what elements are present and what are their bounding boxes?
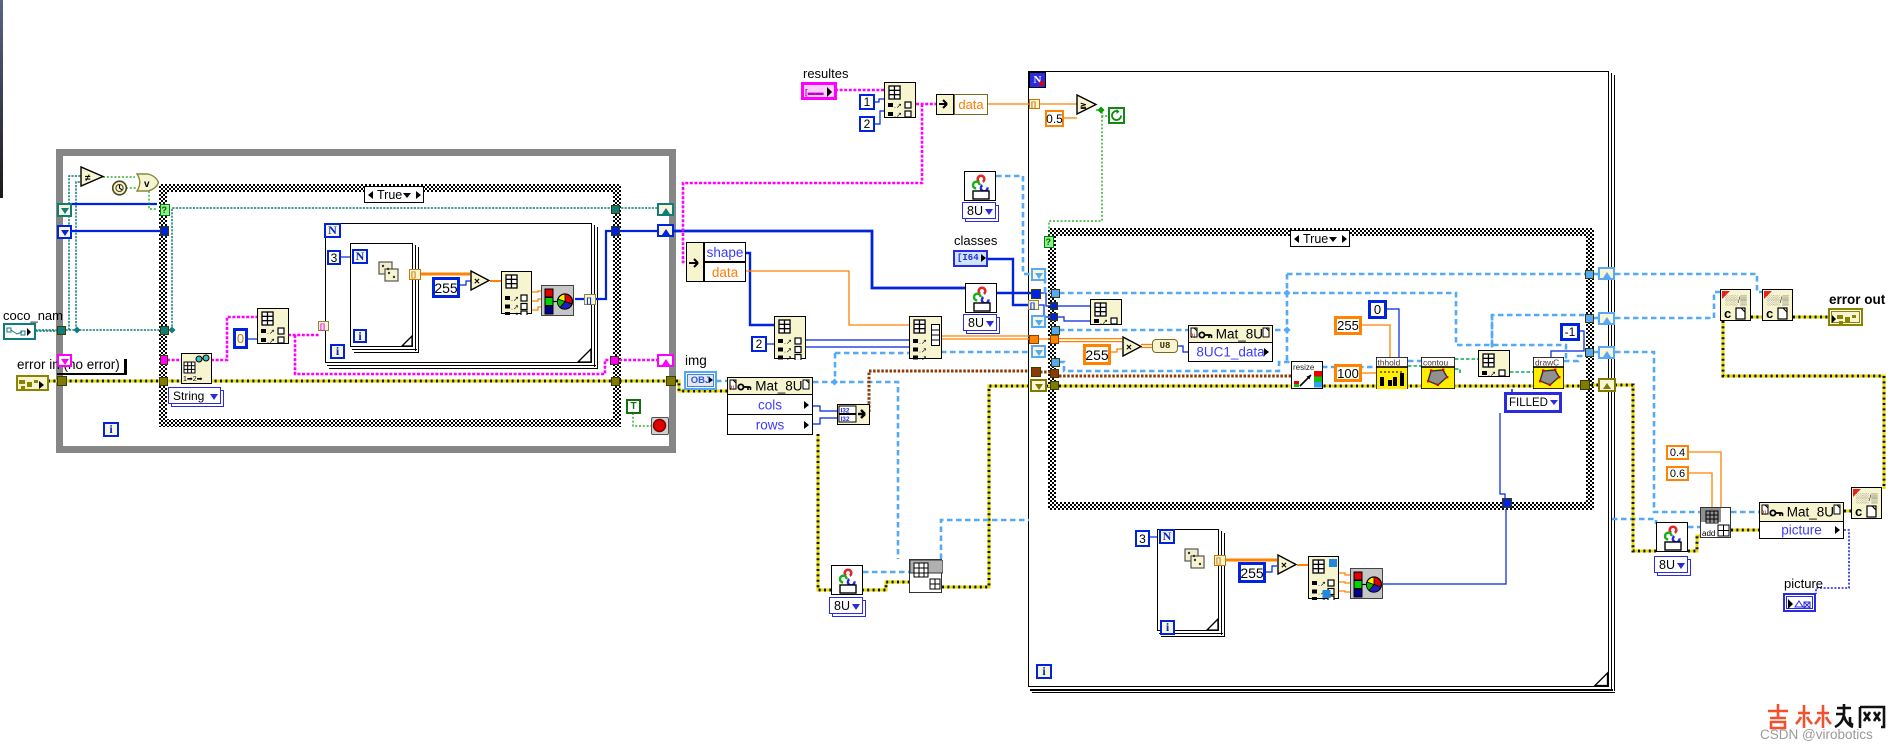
svg-text:.↗: .↗ [919,348,927,355]
svg-text:c: c [1766,306,1773,321]
svg-text:░░/▒: ░░/▒ [1767,295,1789,306]
svg-text:.↗: .↗ [511,296,519,303]
svg-text:.↗: .↗ [784,356,792,361]
svg-text:I32: I32 [841,408,850,415]
svg-text:c: c [1855,504,1862,519]
svg-text:.↗: .↗ [894,112,902,119]
svg-text:.↗: .↗ [267,338,275,345]
svg-text:.↗: .↗ [919,356,927,361]
svg-text:.↗: .↗ [784,339,792,346]
svg-text:.↗: .↗ [784,348,792,355]
svg-text:[▬▬: [▬▬ [805,88,824,97]
svg-text:.↗: .↗ [1318,581,1326,588]
svg-text:1➡2➡: 1➡2➡ [183,376,203,382]
svg-text:I32: I32 [841,416,850,423]
svg-text:.↗: .↗ [919,339,927,346]
svg-text:≠: ≠ [85,173,91,184]
svg-text:≧: ≧ [1080,101,1087,110]
svg-text:drawC: drawC [1535,358,1559,368]
svg-text:?!: ?! [729,386,734,391]
svg-text:.↗: .↗ [1488,371,1496,378]
svg-text:v: v [144,179,150,190]
svg-text:×: × [1126,343,1132,354]
svg-text:.↗: .↗ [1100,319,1108,326]
svg-text:×: × [474,277,480,288]
svg-text:.↗: .↗ [894,103,902,110]
svg-text:.↗: .↗ [511,312,519,315]
svg-text:thhold: thhold [1378,358,1401,368]
svg-text:×: × [1281,561,1287,572]
svg-text:░░/▒: ░░/▒ [1725,295,1747,306]
svg-text:c: c [1724,306,1731,321]
svg-text:░░/▒: ░░/▒ [1856,493,1878,504]
svg-text:resize: resize [1293,363,1315,372]
svg-text:.↗: .↗ [511,305,519,312]
svg-text:?!: ?! [1190,334,1195,339]
svg-text:.↗: .↗ [267,329,275,336]
svg-text:?!: ?! [1761,511,1766,516]
svg-text:add: add [1702,529,1715,538]
svg-text:contou: contou [1423,358,1448,368]
